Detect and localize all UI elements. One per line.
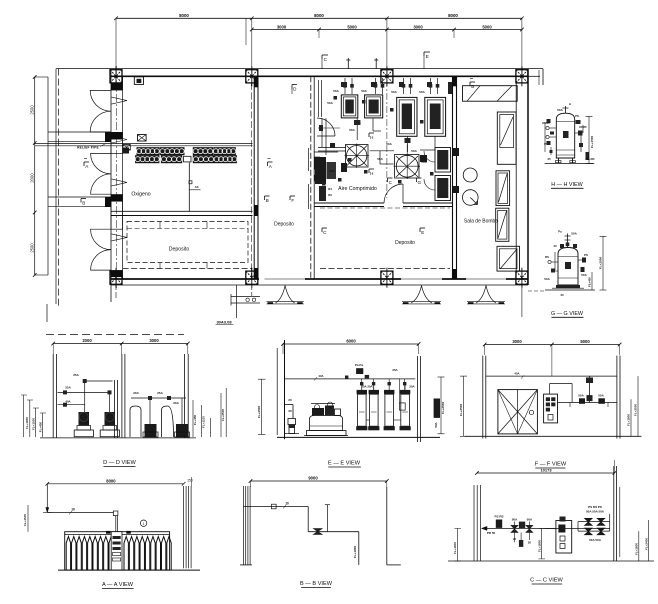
left wall pier 2 bbox=[111, 132, 123, 139]
aire room door to deposito bbox=[384, 184, 403, 203]
wall right bbox=[515, 76, 517, 279]
svg-text:Deposito: Deposito bbox=[395, 240, 415, 246]
GG base flange bbox=[556, 285, 580, 288]
HH base line bbox=[545, 163, 595, 165]
deposito mid dashed platform bbox=[320, 207, 450, 209]
GG extra fittings bbox=[560, 244, 564, 248]
svg-text:25A: 25A bbox=[392, 368, 398, 372]
DD pipes left bbox=[84, 381, 86, 412]
FF control panel bbox=[544, 394, 558, 423]
BB riser bbox=[326, 505, 328, 532]
left vertical dimension bbox=[34, 77, 36, 275]
door D2 double swing bbox=[91, 153, 111, 173]
svg-text:FL+2400: FL+2400 bbox=[644, 538, 648, 550]
DD tank 1 right pair bbox=[130, 406, 141, 437]
air receiver 2 bbox=[425, 97, 446, 136]
EE left wall bbox=[284, 340, 286, 439]
FF door handle bbox=[529, 410, 533, 414]
svg-text:50A: 50A bbox=[333, 89, 339, 93]
svg-text:40A: 40A bbox=[514, 372, 519, 376]
EE drain filter unit bbox=[288, 419, 296, 425]
svg-text:50A: 50A bbox=[598, 394, 604, 398]
wall bottom outer thin bbox=[111, 284, 528, 286]
svg-text:1: 1 bbox=[143, 522, 145, 526]
svg-text:C: C bbox=[389, 180, 393, 185]
svg-text:20A: 20A bbox=[409, 385, 415, 389]
DD floor bbox=[40, 437, 196, 439]
svg-text:8000: 8000 bbox=[106, 478, 116, 483]
hatch square bbox=[497, 246, 520, 271]
DD dim line bbox=[53, 343, 188, 345]
svg-text:50A: 50A bbox=[411, 149, 417, 153]
svg-text:FL+2500: FL+2500 bbox=[257, 405, 261, 418]
svg-text:20: 20 bbox=[513, 537, 517, 541]
svg-text:50A: 50A bbox=[419, 90, 425, 94]
svg-text:A: A bbox=[269, 164, 273, 169]
wall box fitting DL bbox=[123, 145, 131, 151]
CC panel bbox=[556, 521, 572, 554]
svg-text:E — E VIEW: E — E VIEW bbox=[328, 461, 361, 467]
CC right manifold lower bbox=[578, 530, 610, 532]
GG top fittings bbox=[567, 234, 569, 248]
svg-text:C: C bbox=[323, 230, 327, 235]
svg-text:20: 20 bbox=[288, 409, 292, 413]
svg-text:A3: A3 bbox=[195, 185, 199, 189]
DD pipes right bbox=[131, 397, 186, 399]
EE wall elbow bbox=[285, 404, 294, 406]
CC right manifold upper bbox=[578, 521, 610, 523]
svg-text:2500: 2500 bbox=[30, 243, 35, 253]
CC valve 2 bbox=[526, 525, 533, 532]
DD tank 2 right pair bbox=[162, 406, 174, 437]
svg-text:20A: 20A bbox=[173, 401, 179, 405]
svg-text:5000: 5000 bbox=[482, 24, 492, 29]
CC right dims bbox=[638, 531, 640, 561]
svg-text:RS: RS bbox=[545, 255, 549, 259]
FF left dim bbox=[463, 376, 465, 436]
AA left dim arrow bbox=[46, 484, 48, 513]
svg-text:40A: 40A bbox=[65, 400, 70, 404]
AA right posts bbox=[183, 486, 185, 568]
louver tall 1 bbox=[497, 112, 516, 164]
svg-text:8000: 8000 bbox=[314, 13, 324, 18]
AA cylinders bbox=[66, 537, 171, 571]
svg-text:20: 20 bbox=[528, 541, 532, 545]
svg-text:FL+2500: FL+2500 bbox=[634, 404, 638, 416]
section flag C bottom bbox=[322, 227, 327, 229]
section flag C lower bbox=[388, 177, 393, 179]
svg-text:C — C VIEW: C — C VIEW bbox=[530, 578, 563, 584]
grid stubs below columns bbox=[115, 284, 117, 300]
interior wall aire-sala bbox=[452, 76, 454, 279]
deposito SW inner ties bbox=[159, 222, 161, 229]
svg-text:50A: 50A bbox=[527, 518, 533, 522]
section flag G lower bbox=[417, 177, 422, 179]
CC posts right bbox=[613, 466, 615, 561]
EE riser drops bbox=[361, 379, 363, 390]
EE compressor motor bbox=[312, 408, 324, 416]
svg-text:50A: 50A bbox=[581, 273, 587, 277]
EE right dim bracket bbox=[440, 377, 442, 434]
manifold left end blob bbox=[123, 148, 129, 154]
junction box mid bbox=[138, 135, 147, 142]
dimension line row 1 (8000/8000/8000) bbox=[116, 17, 522, 19]
left wall pier 3 bbox=[111, 194, 123, 201]
svg-text:FL+1800: FL+1800 bbox=[627, 414, 631, 426]
svg-text:50A: 50A bbox=[377, 157, 383, 161]
deposito SW bottom dashed line bbox=[123, 268, 253, 270]
door leaf marks bbox=[112, 97, 128, 104]
HH left fittings bbox=[549, 127, 556, 129]
svg-text:FL+1800: FL+1800 bbox=[353, 545, 357, 558]
svg-text:50A: 50A bbox=[571, 232, 577, 236]
svg-text:PS RS PS: PS RS PS bbox=[588, 505, 602, 509]
GG base line bbox=[545, 289, 595, 291]
svg-text:G — G VIEW: G — G VIEW bbox=[551, 311, 584, 317]
HH tank bbox=[556, 113, 574, 158]
air receiver 1 bbox=[397, 97, 417, 136]
interior wall piers x=252 bbox=[254, 76, 258, 87]
EE right wall bbox=[417, 356, 419, 442]
svg-text:FL+1800: FL+1800 bbox=[453, 542, 457, 554]
svg-text:25A: 25A bbox=[65, 386, 71, 390]
svg-text:H: H bbox=[370, 171, 373, 176]
HH extra fittings bbox=[547, 119, 551, 123]
svg-text:FL+1500: FL+1500 bbox=[32, 418, 36, 430]
EE tower connector box bbox=[399, 403, 405, 410]
bottom door 1 double-leaf bbox=[276, 286, 286, 303]
right wall unit 1 bbox=[435, 148, 451, 173]
svg-text:FL+2500: FL+2500 bbox=[221, 409, 225, 421]
canopy lower-left corner bbox=[55, 69, 57, 304]
CC posts left bbox=[473, 485, 475, 561]
pipe fitting label bbox=[189, 181, 192, 184]
louver 2 bbox=[496, 171, 510, 206]
canopy roof edge line bbox=[56, 68, 543, 70]
roof vent symbols bbox=[347, 58, 349, 69]
manifold center box bbox=[184, 156, 192, 162]
svg-text:FL+2500: FL+2500 bbox=[459, 403, 463, 416]
FF floor bbox=[465, 435, 642, 437]
FF right dims bbox=[630, 399, 632, 436]
section flag B sala bbox=[470, 81, 475, 83]
svg-text:25A: 25A bbox=[73, 373, 79, 377]
svg-text:3000: 3000 bbox=[512, 339, 522, 344]
compressor 1 circle bbox=[346, 145, 369, 168]
door D1 double swing bbox=[90, 90, 111, 111]
svg-text:H: H bbox=[370, 135, 373, 140]
canopy left edge bbox=[47, 77, 49, 275]
BB valve bbox=[313, 529, 322, 535]
grid line below right column bbox=[521, 284, 523, 317]
BB floors bbox=[240, 564, 252, 566]
interior wall oxigeno-deposito bbox=[111, 210, 253, 212]
svg-text:D: D bbox=[293, 87, 297, 92]
svg-text:A: A bbox=[85, 164, 89, 169]
grid centerline x3 through aire room bbox=[386, 80, 388, 198]
HH right dim bbox=[588, 116, 590, 163]
svg-text:E: E bbox=[421, 230, 424, 235]
columns bbox=[110, 70, 122, 83]
svg-text:PR 50: PR 50 bbox=[487, 531, 496, 535]
svg-text:C: C bbox=[324, 57, 328, 62]
svg-text:F: F bbox=[291, 198, 294, 203]
wall centerline left bbox=[115, 66, 117, 288]
DD right dims bbox=[192, 400, 194, 437]
CC floor bbox=[448, 560, 654, 562]
HH tank legs bbox=[558, 158, 560, 163]
louver 3 bbox=[496, 208, 509, 241]
svg-text:A: A bbox=[569, 102, 572, 106]
section flag B left bbox=[81, 198, 86, 200]
FF door x-brace bbox=[498, 390, 538, 434]
svg-text:Sala de Bomba: Sala de Bomba bbox=[464, 219, 498, 225]
section flag C top bbox=[322, 54, 328, 56]
GG left fittings bbox=[551, 261, 558, 263]
door D3 double swing bbox=[91, 229, 111, 249]
aire room scattered specks bbox=[334, 96, 338, 100]
EE compressor base bbox=[307, 431, 347, 436]
canopy divider wall 1 bbox=[48, 131, 111, 133]
interior wall x=311 (right of strip) bbox=[310, 76, 312, 279]
wall bottom inner thick bbox=[111, 278, 259, 280]
svg-text:9000: 9000 bbox=[308, 476, 318, 481]
junction box top bbox=[134, 77, 143, 85]
sala wall specks bbox=[453, 148, 459, 156]
svg-text:FL+450: FL+450 bbox=[588, 277, 592, 287]
svg-text:6000: 6000 bbox=[346, 339, 356, 344]
aire room door from strip bbox=[317, 118, 335, 136]
oxygen cylinder bank row 2 bbox=[136, 156, 160, 163]
svg-text:B: B bbox=[82, 201, 85, 206]
dryer unit 2 bbox=[365, 95, 383, 118]
svg-text:50A: 50A bbox=[578, 394, 584, 398]
bottom door 2 double-leaf bbox=[411, 286, 422, 303]
aire room pipes compressor to units bbox=[356, 118, 358, 140]
CC dim mid bbox=[541, 528, 543, 559]
CC filter drop bbox=[520, 532, 522, 540]
svg-text:2000: 2000 bbox=[30, 173, 35, 183]
corner boxes bottom left bbox=[319, 186, 326, 201]
EE pipe fittings cluster bbox=[356, 368, 363, 374]
svg-text:50A: 50A bbox=[327, 101, 333, 105]
GG tank bbox=[558, 248, 578, 286]
svg-text:8000: 8000 bbox=[179, 13, 189, 18]
BB pipe run bbox=[244, 506, 309, 508]
EE dim line bbox=[283, 343, 419, 345]
aire room pipes along left wall bbox=[318, 147, 346, 149]
CC left dim bbox=[457, 528, 459, 561]
BB dim line bbox=[251, 480, 387, 482]
svg-text:50A: 50A bbox=[391, 90, 397, 94]
HH right fittings bbox=[575, 132, 581, 134]
section flag A mid bbox=[268, 161, 273, 163]
EE towers quad bbox=[358, 394, 367, 426]
EE main pipe bbox=[285, 378, 416, 380]
svg-text:8000: 8000 bbox=[448, 13, 458, 18]
svg-text:10173: 10173 bbox=[540, 467, 552, 472]
interior wall x=252 (left of strip) bbox=[253, 76, 255, 279]
svg-text:30A3.08: 30A3.08 bbox=[216, 319, 232, 324]
FF ceiling line bbox=[486, 375, 617, 377]
grid extension lines bbox=[115, 18, 117, 69]
svg-text:Aire Comprimido: Aire Comprimido bbox=[338, 186, 377, 192]
svg-text:40A: 40A bbox=[318, 374, 323, 378]
section flag D bbox=[292, 84, 297, 86]
svg-text:R3: R3 bbox=[328, 193, 332, 197]
svg-text:PS: PS bbox=[575, 114, 579, 118]
GG right fittings bbox=[578, 259, 585, 261]
CC mid fitting bbox=[519, 522, 525, 529]
svg-text:20: 20 bbox=[560, 293, 564, 297]
relief pipe bbox=[35, 143, 253, 145]
left wall face bbox=[122, 76, 124, 279]
svg-text:5000: 5000 bbox=[580, 339, 590, 344]
DD small pumps right bbox=[145, 424, 157, 437]
section flag A left bbox=[84, 161, 89, 163]
section flag H lower bbox=[369, 168, 374, 170]
svg-text:50A: 50A bbox=[512, 518, 518, 522]
svg-text:FL+1800: FL+1800 bbox=[25, 417, 29, 429]
deposito SW dashed platform bbox=[127, 222, 248, 263]
svg-text:3000: 3000 bbox=[277, 24, 287, 29]
section flag E top bbox=[424, 51, 430, 53]
compressor 2 circle bbox=[395, 155, 420, 179]
svg-text:FL+450: FL+450 bbox=[39, 421, 43, 432]
BB drop to floor bbox=[358, 532, 360, 565]
svg-text:20: 20 bbox=[288, 398, 292, 402]
svg-text:Oxigeno: Oxigeno bbox=[131, 192, 150, 198]
svg-text:Deposito: Deposito bbox=[274, 222, 294, 228]
svg-text:50A: 50A bbox=[361, 89, 367, 93]
svg-text:3000: 3000 bbox=[149, 338, 159, 343]
FF valve riser bbox=[588, 376, 590, 402]
FF posts bbox=[482, 356, 484, 439]
svg-text:FL+1800: FL+1800 bbox=[537, 540, 541, 552]
aire room mid cluster bbox=[341, 163, 347, 172]
manifold center pipe bbox=[188, 162, 190, 211]
AA circle marker 1 bbox=[140, 520, 146, 526]
oxygen cylinder bank row 1 bbox=[137, 148, 159, 155]
svg-text:E: E bbox=[426, 54, 429, 59]
svg-text:50A: 50A bbox=[349, 128, 355, 132]
svg-text:H — H VIEW: H — H VIEW bbox=[551, 182, 583, 188]
HH top stem bbox=[565, 106, 567, 114]
svg-text:50A: 50A bbox=[386, 142, 392, 146]
svg-text:FL+450: FL+450 bbox=[193, 414, 197, 425]
svg-text:3000: 3000 bbox=[413, 24, 423, 29]
dryer unit 1 bbox=[341, 95, 358, 118]
svg-text:FL+450: FL+450 bbox=[585, 157, 595, 161]
DD pump 2 bbox=[100, 430, 119, 437]
svg-text:A — A VIEW: A — A VIEW bbox=[102, 582, 134, 588]
section flag H upper bbox=[369, 132, 374, 134]
AA cylinder rack outline bbox=[65, 532, 170, 570]
svg-text:25A: 25A bbox=[157, 391, 163, 395]
interior wall piers x=452 bbox=[453, 76, 457, 86]
svg-text:D — D VIEW: D — D VIEW bbox=[103, 460, 136, 466]
DD pump 1 bbox=[74, 430, 93, 437]
svg-text:40: 40 bbox=[553, 244, 557, 248]
svg-text:50A: 50A bbox=[557, 108, 563, 112]
svg-text:FL+2500: FL+2500 bbox=[441, 401, 445, 414]
AA center riser column bbox=[111, 532, 122, 570]
svg-text:50A: 50A bbox=[544, 277, 550, 281]
GG right dim bbox=[602, 236, 604, 290]
svg-text:PS RS: PS RS bbox=[494, 515, 503, 519]
section flag B mid bbox=[265, 195, 270, 197]
aire room bottom wall bbox=[314, 202, 384, 204]
EE left dim bracket bbox=[261, 379, 263, 434]
svg-text:25: 25 bbox=[547, 157, 551, 161]
svg-text:R4: R4 bbox=[328, 187, 332, 191]
canopy divider wall 2 bbox=[48, 196, 111, 198]
svg-text:FL+2500: FL+2500 bbox=[599, 256, 603, 269]
svg-text:FL+1100: FL+1100 bbox=[202, 416, 206, 428]
right wall unit 2 bbox=[435, 176, 451, 201]
EE floor bbox=[277, 436, 440, 438]
wall left outer bbox=[110, 69, 112, 302]
svg-text:B: B bbox=[471, 84, 474, 89]
pump circle 2 bbox=[463, 190, 479, 206]
FF pipe from panel bbox=[549, 384, 551, 395]
svg-text:20A: 20A bbox=[133, 391, 139, 395]
EE right wall unit bbox=[434, 399, 440, 418]
FF dim line bbox=[485, 344, 620, 346]
svg-text:FL+1800: FL+1800 bbox=[634, 543, 638, 555]
svg-text:2000: 2000 bbox=[82, 338, 92, 343]
pump circle 1 bbox=[463, 168, 477, 182]
CC top dim (10173) bbox=[477, 472, 615, 474]
drain pipe below wall bbox=[236, 285, 238, 318]
BB left wall lines bbox=[243, 486, 245, 565]
louver top horizontal bbox=[463, 86, 518, 102]
svg-text:PS: PS bbox=[584, 253, 588, 257]
CC main pipe bbox=[482, 527, 610, 529]
top wall pipe stubs bbox=[344, 78, 346, 94]
canopy pier fills bbox=[105, 132, 111, 142]
AA dim line bbox=[47, 483, 183, 485]
svg-text:50A: 50A bbox=[329, 169, 335, 173]
svg-text:FL+1500: FL+1500 bbox=[590, 135, 594, 148]
canopy boundary dashed bbox=[58, 69, 60, 308]
svg-text:150: 150 bbox=[187, 479, 193, 483]
wall top inner bbox=[111, 75, 528, 77]
bottom door 3 double-leaf bbox=[476, 286, 486, 303]
section flag F mid bbox=[290, 195, 295, 197]
left wall pier 1 bbox=[111, 83, 123, 90]
top wall fitting cluster bbox=[341, 82, 347, 87]
wall manifold cluster left bbox=[315, 157, 326, 184]
AA base line bbox=[58, 569, 200, 571]
svg-text:25A 20A: 25A 20A bbox=[361, 385, 373, 389]
FF pipe right bbox=[558, 402, 617, 404]
svg-text:5000: 5000 bbox=[347, 24, 357, 29]
svg-text:50A 50A 50A: 50A 50A 50A bbox=[586, 510, 605, 514]
svg-text:RELIEF PIPE: RELIEF PIPE bbox=[77, 146, 99, 150]
svg-text:2500: 2500 bbox=[30, 105, 35, 115]
left wall pier 4 bbox=[111, 270, 123, 277]
svg-text:50A 50A: 50A 50A bbox=[589, 538, 602, 542]
DD posts bbox=[52, 354, 54, 438]
CC valve 1 bbox=[511, 525, 518, 532]
section flag E bottom bbox=[420, 227, 425, 229]
EE compressor tank bbox=[310, 416, 343, 431]
BB right post bbox=[386, 487, 388, 565]
svg-text:Deposito: Deposito bbox=[169, 247, 190, 253]
svg-text:50A: 50A bbox=[434, 421, 438, 427]
DD left dims bbox=[23, 395, 25, 437]
